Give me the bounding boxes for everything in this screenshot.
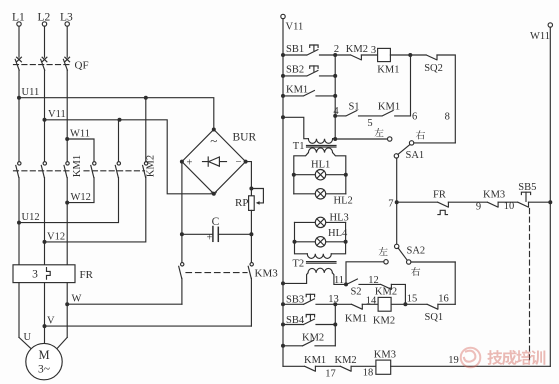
svg-text:11: 11	[334, 275, 344, 286]
wire T1 secondary to lamp box	[294, 153, 346, 194]
svg-text:M: M	[38, 348, 49, 362]
svg-text:V: V	[47, 315, 55, 326]
terminal L1	[12, 12, 25, 58]
lamp HL3	[295, 212, 349, 227]
switch S2	[347, 275, 381, 297]
svg-text:L1: L1	[12, 12, 25, 24]
SB5 linkage dashed	[529, 209, 531, 363]
svg-text:SB2: SB2	[286, 65, 304, 76]
wire rectifier plus down	[181, 162, 183, 235]
contactor KM2 main contacts	[84, 155, 157, 177]
contact KM1 NC bottom	[283, 355, 340, 380]
svg-text:17: 17	[325, 368, 336, 379]
selector switch SA1	[335, 128, 455, 161]
coil KM3	[374, 350, 551, 375]
svg-text:3~: 3~	[38, 364, 50, 376]
svg-text:+: +	[187, 157, 193, 168]
svg-text:W: W	[72, 294, 82, 305]
wire V12 to FR	[44, 178, 46, 265]
node V wire	[43, 283, 252, 329]
transformer T1 feed	[283, 117, 308, 138]
lamp HL1	[292, 159, 348, 180]
coil KM1	[377, 48, 426, 75]
svg-text:FR: FR	[80, 269, 94, 281]
contact KM3 NC	[483, 189, 517, 212]
svg-text:KM1: KM1	[286, 85, 308, 96]
wire T2 primary right to node 11	[332, 273, 346, 286]
svg-text:7: 7	[388, 198, 393, 209]
lamp HL4	[293, 228, 348, 247]
svg-text:KM3: KM3	[483, 189, 505, 200]
wire SA1 common to node 7	[396, 158, 398, 202]
wire L2 to V11 node	[44, 70, 46, 161]
svg-text:KM2: KM2	[146, 155, 157, 177]
selector switch SA2	[379, 244, 456, 276]
svg-text:8: 8	[445, 111, 450, 122]
svg-text:KM1: KM1	[345, 314, 367, 325]
svg-text:−: −	[236, 157, 242, 168]
riser to KM2 pole 2	[118, 120, 120, 161]
contactor KM3 braking contacts	[179, 234, 279, 279]
contact FR NC	[397, 190, 487, 215]
svg-text:KM2: KM2	[375, 287, 397, 298]
svg-text:KM2: KM2	[335, 355, 357, 366]
svg-text:3: 3	[371, 45, 376, 56]
pushbutton SB4	[283, 315, 335, 326]
wire L1 to U11 node	[18, 70, 20, 161]
node 2	[333, 44, 339, 57]
contactor KM1 main contacts	[14, 155, 84, 177]
svg-text:RP: RP	[235, 197, 248, 209]
pushbutton SB2	[283, 65, 335, 76]
wire rectifier minus to RP	[246, 162, 254, 196]
svg-text:5: 5	[367, 118, 372, 129]
node W12 wire	[65, 178, 94, 205]
svg-text:10: 10	[504, 201, 515, 212]
contact KM2 NC bottom	[335, 355, 376, 379]
wire SA2 left to node 11	[346, 262, 384, 285]
svg-text:SB5: SB5	[518, 182, 536, 193]
pushbutton SB1	[283, 44, 335, 55]
wire L3 to W11 node	[66, 70, 68, 161]
node 13 column	[333, 304, 337, 346]
svg-text:L2: L2	[38, 12, 51, 24]
transformer T1	[293, 139, 336, 153]
node 13	[328, 294, 339, 307]
lamp HL2	[294, 189, 353, 207]
svg-text:18: 18	[363, 368, 374, 379]
pushbutton SB3	[283, 294, 335, 305]
node U12 wire	[17, 178, 119, 225]
wire W12 to FR	[66, 178, 68, 265]
svg-text:2: 2	[334, 44, 339, 55]
svg-text:W11: W11	[530, 31, 550, 42]
node 4	[333, 106, 339, 117]
node 2 column	[333, 55, 337, 141]
capacitor C	[180, 216, 254, 243]
svg-text:C: C	[212, 216, 220, 228]
terminal L2	[38, 12, 51, 58]
svg-text:SQ1: SQ1	[425, 312, 444, 323]
svg-text:KM1: KM1	[72, 155, 83, 177]
svg-text:KM1: KM1	[377, 65, 399, 76]
node W11 wire	[65, 128, 94, 161]
coil KM2	[373, 297, 427, 326]
wire KM3 to V	[250, 278, 252, 326]
transformer T2	[293, 254, 337, 273]
switch S1	[335, 101, 382, 129]
svg-text:KM1: KM1	[378, 101, 400, 112]
node 7	[388, 198, 398, 209]
wire lamp box to T2 secondary	[295, 222, 346, 253]
svg-text:W11: W11	[70, 128, 90, 139]
svg-text:+: +	[207, 232, 213, 243]
bridge rectifier BUR	[180, 128, 257, 200]
node U wire	[19, 283, 32, 343]
svg-text:19: 19	[448, 355, 459, 366]
terminal L3	[60, 12, 73, 58]
node 15	[403, 293, 417, 306]
svg-text:U: U	[24, 332, 32, 343]
svg-text:KM3: KM3	[255, 268, 279, 280]
svg-text:QF: QF	[75, 60, 89, 72]
svg-text:14: 14	[366, 295, 377, 306]
riser to KM2 pole 3	[145, 98, 147, 161]
circuit breaker QF	[14, 57, 89, 71]
wire U12 to FR	[18, 178, 20, 265]
watermark logo 技成培训	[461, 348, 546, 368]
svg-text:12: 12	[368, 275, 379, 286]
svg-text:T2: T2	[293, 259, 305, 270]
svg-text:FR: FR	[433, 190, 446, 201]
limit switch SQ1 NC	[425, 293, 456, 323]
svg-text:13: 13	[328, 294, 339, 305]
right control rail	[548, 27, 552, 366]
svg-text:3: 3	[32, 269, 38, 281]
svg-text:SA1: SA1	[406, 150, 425, 161]
limit switch SQ2 NC	[424, 55, 455, 143]
node 11	[344, 282, 348, 286]
svg-text:~: ~	[210, 185, 217, 200]
svg-text:HL4: HL4	[328, 228, 348, 239]
wire RP to capacitor node	[250, 210, 252, 234]
svg-text:SB4: SB4	[286, 315, 305, 326]
svg-text:SQ2: SQ2	[424, 63, 443, 74]
svg-text:S1: S1	[348, 101, 359, 112]
svg-text:KM2: KM2	[373, 315, 395, 326]
terminal V11 control	[281, 14, 303, 32]
svg-text:W12: W12	[71, 192, 91, 203]
potentiometer RP	[235, 189, 263, 211]
svg-text:V12: V12	[47, 231, 65, 242]
contact KM1 NO row4	[378, 55, 417, 123]
pushbutton SB5 NC	[518, 182, 551, 207]
svg-text:L3: L3	[60, 12, 73, 24]
svg-text:4: 4	[333, 106, 339, 117]
contact KM2 NC rowA	[375, 284, 405, 304]
svg-text:S2: S2	[350, 286, 361, 297]
svg-text:6: 6	[412, 112, 417, 123]
svg-text:U11: U11	[22, 87, 40, 98]
node W wire	[65, 283, 182, 307]
svg-text:U12: U12	[22, 212, 40, 223]
svg-text:16: 16	[438, 293, 449, 304]
node U11 and wire to rectifier top	[17, 87, 214, 130]
wire node 7 to SA2	[396, 202, 398, 244]
svg-text:KM2: KM2	[346, 44, 368, 55]
wire SA2 right to node 16 rail	[454, 262, 456, 304]
wire KM3 to W	[181, 278, 183, 304]
contact KM2 NC interlock	[335, 44, 377, 60]
node V12 wire	[43, 178, 146, 244]
svg-text:SB1: SB1	[286, 44, 304, 55]
svg-text:T1: T1	[293, 141, 305, 152]
node V11 and wire to rectifier bottom	[43, 109, 214, 194]
svg-text:KM2: KM2	[302, 332, 324, 343]
svg-text:KM1: KM1	[304, 355, 326, 366]
svg-text:HL3: HL3	[330, 212, 349, 223]
terminal W11 control	[530, 23, 553, 42]
svg-text:V11: V11	[286, 22, 304, 33]
svg-text:V11: V11	[48, 109, 66, 120]
svg-text:SB3: SB3	[286, 295, 304, 306]
svg-text:HL1: HL1	[311, 159, 330, 170]
svg-text:HL2: HL2	[334, 196, 353, 207]
motor M 3-phase	[19, 304, 67, 380]
wire T2 primary left to rail	[283, 273, 308, 284]
svg-text:9: 9	[476, 201, 481, 212]
svg-text:SA2: SA2	[407, 246, 426, 257]
contact KM1 NC interlock rowB	[335, 295, 378, 324]
svg-text:~: ~	[210, 133, 217, 148]
thermal relay FR heater element	[13, 265, 94, 283]
svg-text:BUR: BUR	[233, 131, 257, 143]
svg-text:15: 15	[407, 293, 418, 304]
diode inside BUR	[203, 157, 227, 166]
contact KM1 self-holding NO	[283, 85, 335, 96]
left control rail	[281, 19, 285, 367]
svg-text:KM3: KM3	[374, 350, 396, 361]
contact KM2 self-holding NO	[283, 332, 335, 345]
